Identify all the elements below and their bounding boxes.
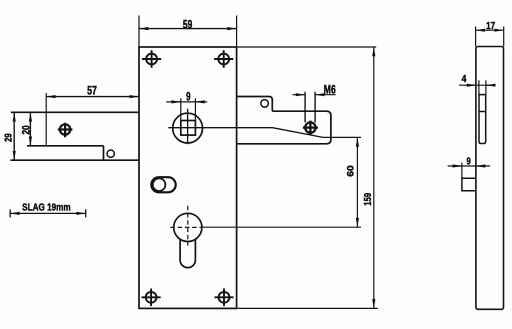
svg-text:9: 9: [186, 92, 191, 104]
dimension 9 extension lines: [180, 98, 182, 120]
pin in follower slot: [153, 178, 166, 191]
bolt guide vertical: [103, 146, 105, 160]
spindle horizontal centerline continuing into bolt: [168, 127, 272, 129]
svg-text:4: 4: [462, 73, 467, 85]
spindle follower circle: [173, 113, 203, 143]
euro cylinder dashed vertical centerline: [187, 206, 189, 246]
latch follower slot (stadium): [151, 177, 175, 192]
svg-text:59: 59: [183, 18, 193, 31]
dimension 9 arrows: [171, 101, 181, 103]
bolt bevel diagonal: [273, 128, 362, 138]
faceplate slot divider: [479, 111, 486, 113]
dimension 59 line: [139, 28, 237, 30]
svg-text:29: 29: [4, 133, 15, 142]
dimension 4 extension lines: [478, 80, 480, 94]
svg-text:9: 9: [466, 155, 470, 167]
SLAG dimension line: [10, 212, 86, 214]
M6 dimension arrows: [293, 94, 306, 96]
dimension 4 arrows: [466, 84, 476, 86]
euro cylinder circle: [174, 213, 202, 241]
svg-text:20: 20: [20, 125, 32, 134]
svg-text:17: 17: [486, 20, 495, 32]
bolt step line: [27, 145, 104, 147]
dimension 4 line: [459, 84, 492, 86]
top extension line to dimension 159: [237, 46, 377, 48]
svg-text:60: 60: [346, 165, 357, 177]
faceplate slot side view: [479, 95, 486, 144]
dimension 9 side extension line: [461, 163, 463, 179]
dimension 59 extension line left: [138, 16, 140, 47]
dimension 9 line over spindle: [166, 101, 207, 103]
dimension 17 extension lines: [475, 27, 477, 47]
dimension 20 line: [29, 112, 31, 146]
spindle square hole: [181, 121, 196, 136]
screw hole bottom-left: [142, 289, 161, 307]
euro cylinder dashed horizontal centerline: [170, 226, 203, 228]
dimension 9 side line: [448, 165, 491, 167]
screw hole bottom-right: [214, 289, 233, 307]
bolt front view right outline: [237, 97, 331, 144]
svg-text:57: 57: [87, 86, 97, 98]
svg-text:SLAG 19mm: SLAG 19mm: [22, 202, 71, 213]
hole in bolt tab: [261, 100, 269, 108]
bolt front view left top edge: [11, 111, 139, 113]
dimension 9 side arrows: [452, 165, 462, 167]
screw hole in left bolt: [58, 123, 73, 137]
SLAG dimension end ticks: [9, 209, 11, 217]
bolt front view left bottom edge: [10, 159, 139, 161]
dimension 57 line: [46, 96, 139, 98]
M6 thread lines: [304, 92, 306, 123]
euro cylinder keyway: [180, 239, 195, 268]
svg-text:159: 159: [363, 193, 374, 206]
hole in bolt guide: [107, 150, 114, 157]
M6 screw head: [303, 121, 318, 135]
svg-text:M6: M6: [324, 85, 336, 97]
bottom extension line to dimension 159: [237, 307, 378, 309]
spindle vertical centerline: [187, 109, 189, 145]
bolt head left edge with dimension 29 arrows: [13, 112, 15, 160]
dimension 60 line: [356, 137, 358, 227]
dimension 57 extension line: [45, 93, 47, 146]
bolt tab side view: [462, 178, 476, 190]
dimension 17 line: [476, 29, 504, 31]
dimension 59 extension line right: [236, 16, 238, 47]
side view outline: [476, 47, 504, 310]
main lock case front view outline: [139, 47, 237, 308]
screw hole top-left: [142, 50, 161, 68]
extension line from cylinder centre to dimension 60: [203, 226, 361, 228]
dimension 159 line: [373, 47, 375, 308]
screw hole top-right: [214, 50, 233, 68]
